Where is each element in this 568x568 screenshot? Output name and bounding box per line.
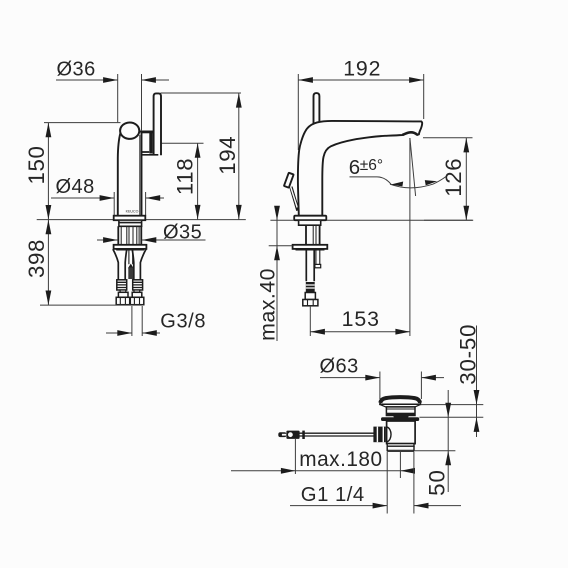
svg-text:50: 50 xyxy=(424,469,449,496)
pop-up rod side view xyxy=(300,433,375,436)
handle neck bar (front view) xyxy=(149,133,152,154)
drain body xyxy=(387,421,416,444)
svg-text:Ø63: Ø63 xyxy=(320,356,359,378)
extension line top of faucet (150 dim) xyxy=(44,122,121,124)
extension line handle bottom (118 dim) xyxy=(161,142,204,144)
svg-text:30-50: 30-50 xyxy=(456,324,481,385)
handle lower lines (front view) xyxy=(142,152,159,155)
dimension max.40 extension line xyxy=(269,245,293,247)
body inner wall line front view xyxy=(139,135,141,216)
dimension G3/8 dim line xyxy=(106,332,160,334)
dimension 192 extension lines xyxy=(298,74,423,150)
faucet handle blade (front view) xyxy=(154,93,161,155)
dimension max.180 extension line xyxy=(294,439,296,474)
rod clevis at drain xyxy=(373,427,385,443)
dimension Ø63 dim line xyxy=(320,377,444,379)
dimension G1 1/4 dim line xyxy=(290,505,461,507)
svg-text:153: 153 xyxy=(342,307,380,331)
pull rod grip side view xyxy=(284,173,294,188)
dimension Ø35 dim line xyxy=(97,239,206,241)
aerator bump thick stroke xyxy=(402,132,417,135)
lever pin side view xyxy=(314,93,320,128)
left hose tube+block+nut front view xyxy=(120,290,126,292)
svg-text:G1 1/4: G1 1/4 xyxy=(301,484,365,506)
svg-text:6: 6 xyxy=(349,156,360,179)
dimension max.40 dim line xyxy=(276,209,278,341)
svg-text:398: 398 xyxy=(24,239,49,278)
base plate side view xyxy=(294,216,326,221)
locknut flange front view xyxy=(114,245,147,249)
drain centerline xyxy=(399,450,401,478)
mounting surface line (front view) xyxy=(37,219,246,221)
dimension Ø63 extension lines xyxy=(380,372,422,400)
right hose crimp front view xyxy=(133,280,143,290)
rod through shank side view xyxy=(316,249,320,264)
drain neck xyxy=(386,407,415,416)
svg-text:150: 150 xyxy=(24,145,49,184)
dimension 30-50 extension lines xyxy=(419,405,483,418)
dimension 153 dim line xyxy=(310,331,410,333)
svg-text:192: 192 xyxy=(343,57,381,81)
shank top block front view xyxy=(119,221,142,226)
hose side view xyxy=(306,249,314,281)
vertical stream reference line xyxy=(409,138,411,336)
dimension Ø36 extension lines xyxy=(118,74,142,130)
drain flange ring xyxy=(381,417,419,421)
dimension G3/8 extension lines xyxy=(132,306,142,336)
svg-text:G3/8: G3/8 xyxy=(160,311,206,333)
base plate front view xyxy=(114,216,146,221)
dimension 118 dim line xyxy=(197,143,199,219)
dimension Ø48 dim line xyxy=(51,197,164,199)
shank verticals front view xyxy=(118,226,141,245)
dimension 126 dim line xyxy=(465,138,467,221)
mounting surface line (side view) xyxy=(270,219,473,221)
svg-text:Ø36: Ø36 xyxy=(57,58,96,80)
svg-text:max.180: max.180 xyxy=(299,448,382,471)
pull rod shaft side view xyxy=(291,187,298,211)
svg-text:126: 126 xyxy=(441,158,466,197)
right hose front view xyxy=(132,249,146,280)
locknut flange side view xyxy=(293,245,328,249)
extension line handle top (194 dim) xyxy=(161,92,242,94)
dimension max.180 dim line xyxy=(231,470,415,472)
hose end extension line (398 bottom) xyxy=(40,304,143,306)
dimension 194 dim line xyxy=(238,93,240,220)
drain cap dome xyxy=(380,397,421,404)
shank verticals side view xyxy=(306,225,320,245)
drain tail step xyxy=(387,444,414,447)
svg-text:max.40: max.40 xyxy=(256,268,280,341)
angle leader line xyxy=(350,177,392,184)
shank top block side view xyxy=(299,221,321,225)
svg-text:KEUCO: KEUCO xyxy=(126,210,139,214)
svg-text:194: 194 xyxy=(215,136,240,175)
dimension Ø48 extension lines xyxy=(114,192,145,216)
svg-text:±6°: ±6° xyxy=(360,157,383,174)
dimension 50 dim line xyxy=(447,390,449,492)
left hose crimp front view xyxy=(117,280,127,290)
dimension G1 1/4 extension lines xyxy=(387,452,414,514)
dimension 126 extension lines xyxy=(423,138,473,221)
drain cap underside xyxy=(380,404,421,407)
svg-text:Ø48: Ø48 xyxy=(56,176,95,198)
handle stub (front view) xyxy=(139,130,154,133)
right hose tube+block+nut front view xyxy=(134,290,140,292)
50 extension line xyxy=(414,450,455,452)
ball joint arc xyxy=(387,427,391,442)
rod clip tick xyxy=(302,431,305,439)
dimension Ø36 arrows xyxy=(103,77,118,83)
dimension 153 extension line left xyxy=(309,306,311,336)
dimension Ø36 dim line xyxy=(56,79,169,81)
faucet body (front view) xyxy=(118,133,142,216)
cartridge cap ellipse (front view) xyxy=(120,123,139,139)
slanted 6deg stream line xyxy=(410,138,416,196)
dimension 150/398 dim line xyxy=(47,123,49,306)
faucet body and spout side view xyxy=(298,121,422,216)
svg-text:118: 118 xyxy=(173,158,198,195)
rod tip knob xyxy=(278,432,286,437)
rod collar xyxy=(286,431,299,439)
dimension 30-50 dim line xyxy=(476,326,478,438)
dimension 192 dim line xyxy=(298,79,423,81)
pull rod between hoses front view xyxy=(129,249,133,264)
svg-text:Ø35: Ø35 xyxy=(163,221,202,243)
angle arc 6+-6 xyxy=(390,177,446,188)
left hose front view xyxy=(113,249,127,280)
